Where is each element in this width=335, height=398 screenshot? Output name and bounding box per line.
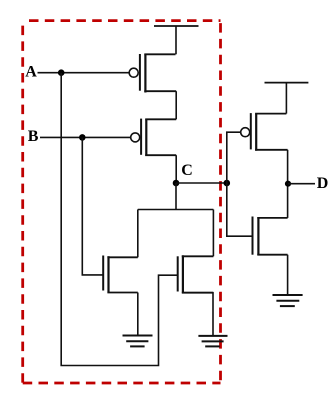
wire: A junction down, across bottom, up to NMOS2 gate xyxy=(61,73,178,366)
power VDD bar (NOR stage) xyxy=(154,26,199,54)
ground (NMOS1 source) xyxy=(123,336,153,347)
junction: node A xyxy=(58,69,65,76)
transistor PMOS3 (inverter pull-up) xyxy=(241,113,288,151)
junction: node B xyxy=(79,134,86,141)
wire: bus down to NMOS1 drain xyxy=(137,210,139,258)
power VDD bar (inverter stage) xyxy=(265,83,309,114)
dashed highlight box around NOR stage xyxy=(23,21,221,383)
wire: NMOS1 source to ground xyxy=(137,293,139,336)
ground (inverter) xyxy=(273,295,303,306)
transistor PMOS1 (gate A) xyxy=(129,54,176,93)
transistor NMOS2 (gate A, right pull-down) xyxy=(178,255,214,292)
svg-text:C: C xyxy=(181,162,193,179)
wire: node C down to NMOS drain bus xyxy=(175,183,177,210)
wire: A input to PMOS1 gate xyxy=(38,72,130,74)
ground (NMOS2 source) xyxy=(198,336,227,347)
wire: NMOS drain bus xyxy=(138,209,214,211)
svg-text:D: D xyxy=(317,175,329,192)
junction: inverter input node xyxy=(224,180,231,187)
wire: PMOS1 drain to PMOS2 source xyxy=(175,91,177,119)
wire: inverter input up to PMOS3 gate xyxy=(227,132,241,183)
wire: B junction down to NMOS1 gate xyxy=(82,137,103,275)
junction: node C xyxy=(173,180,180,187)
wire: node C to inverter input xyxy=(176,182,227,184)
wire: PMOS2 drain to node C xyxy=(175,155,177,183)
wire: bus down to NMOS2 drain xyxy=(212,210,214,257)
svg-text:B: B xyxy=(28,128,39,145)
wire: NMOS3 source to ground xyxy=(287,255,289,295)
transistor NMOS1 (gate B, left pull-down) xyxy=(103,256,138,293)
wire: node D stub xyxy=(288,183,315,185)
junction: node D xyxy=(285,181,291,187)
wire: NMOS2 source to ground xyxy=(183,293,213,336)
wire: B input to PMOS2 gate xyxy=(40,136,131,138)
wire: inverter input down to NMOS3 gate xyxy=(227,183,253,236)
wire: NMOS3 drain up to node D xyxy=(287,184,289,218)
wire: PMOS3 drain down to node D xyxy=(287,150,289,184)
transistor PMOS2 (gate B) xyxy=(131,119,177,156)
svg-text:A: A xyxy=(25,64,37,81)
transistor NMOS3 (inverter pull-down) xyxy=(253,217,288,256)
